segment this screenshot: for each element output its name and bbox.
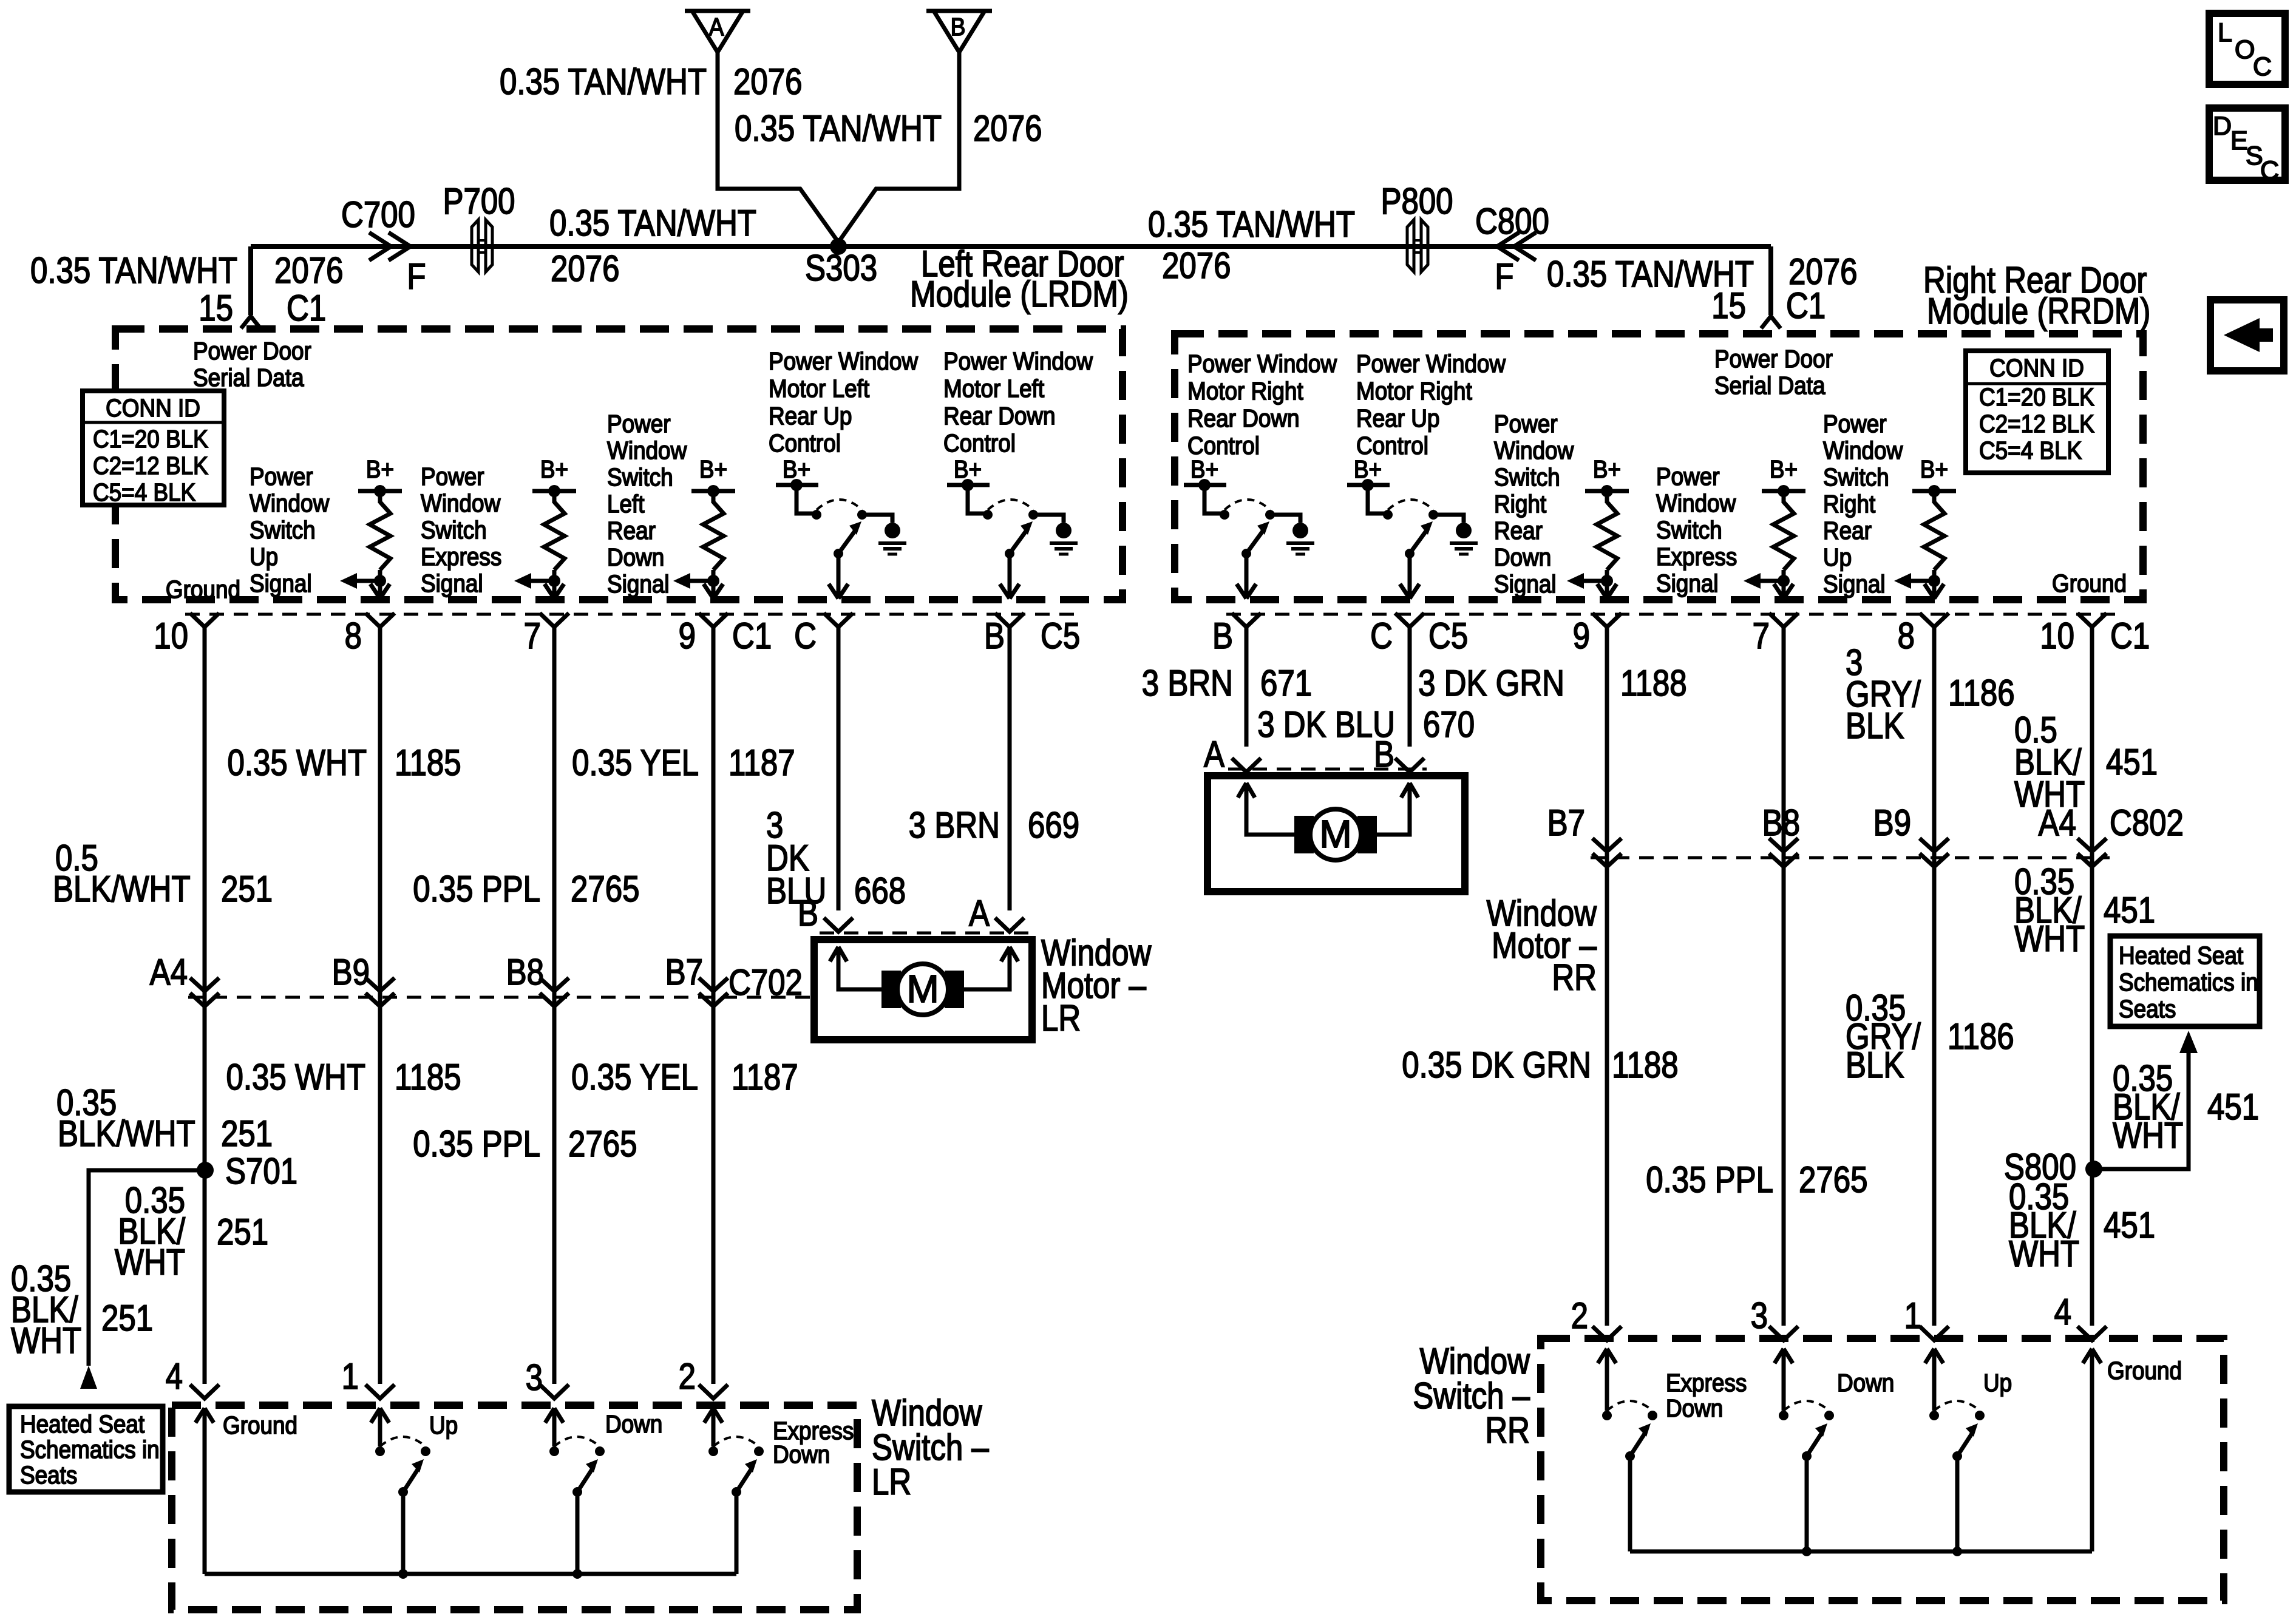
switch RR pin chevron xyxy=(1592,1326,1622,1340)
svg-text:Power: Power xyxy=(607,410,671,438)
RRDM pin 9 chevron xyxy=(1592,613,1622,627)
wire power window motor right rear down control to ground xyxy=(1270,515,1300,523)
wire 1186 (pin8 RRDM to switch RR pin1) xyxy=(1932,628,1937,1326)
svg-text:251: 251 xyxy=(221,1113,273,1154)
motor RR connector row xyxy=(1228,768,1427,771)
svg-text:LR: LR xyxy=(872,1462,911,1502)
wire S800 branch to heated seat xyxy=(2094,1053,2189,1169)
switch moving arm xyxy=(732,1487,741,1497)
wire from triangle A xyxy=(718,52,838,242)
svg-text:Switch: Switch xyxy=(250,517,316,544)
LRDM pin 9 chevron xyxy=(699,613,728,627)
LRDM bottom connector line (thin dashed) xyxy=(185,613,1081,616)
connector C802 B7 xyxy=(1592,838,1622,852)
svg-text:B+: B+ xyxy=(1770,456,1798,483)
switch arm power window motor left rear up control xyxy=(834,549,843,558)
LRDM CONN ID table xyxy=(83,391,224,505)
right corner stub to RRDM pin 15 xyxy=(1768,246,1773,315)
svg-text:Switch: Switch xyxy=(1494,464,1560,491)
wire arm to common bus xyxy=(401,1492,406,1574)
svg-text:Right: Right xyxy=(1823,490,1875,518)
svg-text:0.35 DK GRN: 0.35 DK GRN xyxy=(1402,1045,1591,1085)
module box Right Rear Door Module (dashed) xyxy=(1175,334,2143,600)
RRDM pin 10 chevron xyxy=(2077,613,2107,627)
signal arrow power window switch express signal R2 xyxy=(529,579,554,583)
svg-text:P700: P700 xyxy=(443,181,515,222)
DESC reference box xyxy=(2209,108,2285,180)
off-page connector triangle A xyxy=(685,9,750,13)
svg-text:LR: LR xyxy=(1041,998,1081,1039)
svg-text:3 DK GRN: 3 DK GRN xyxy=(1418,663,1564,703)
arrowhead power window switch express signal R2 to pin xyxy=(545,584,554,598)
svg-text:Rear: Rear xyxy=(1494,517,1543,544)
junction xyxy=(572,1569,582,1579)
svg-text:B7: B7 xyxy=(665,952,703,992)
resistor power window switch express signal R2 xyxy=(544,502,565,570)
svg-text:Rear Up: Rear Up xyxy=(1356,405,1439,432)
svg-text:C5=4 BLK: C5=4 BLK xyxy=(1979,437,2082,464)
svg-text:Rear Up: Rear Up xyxy=(769,402,852,430)
wire 2765 (pin7 to switch LR pin3) xyxy=(552,628,557,1384)
svg-text:B+: B+ xyxy=(540,456,568,483)
svg-text:B: B xyxy=(984,615,1005,656)
window switch RR box (dashed) xyxy=(1541,1338,2224,1601)
svg-text:C5: C5 xyxy=(1041,615,1080,656)
svg-text:451: 451 xyxy=(2104,1205,2155,1246)
svg-text:Power: Power xyxy=(250,463,313,490)
svg-text:Power: Power xyxy=(421,463,484,490)
wire power window switch express signal R2 resistor to module pin xyxy=(552,570,557,598)
svg-text:669: 669 xyxy=(1028,805,1079,846)
svg-text:WHT: WHT xyxy=(2113,1115,2183,1156)
svg-text:Signal: Signal xyxy=(1656,570,1719,597)
pin 15 chevron RRDM xyxy=(1761,316,1781,328)
off-page arrow to heated seat right xyxy=(2179,1031,2198,1053)
connector C800 xyxy=(1497,232,1519,260)
svg-text:C2=12 BLK: C2=12 BLK xyxy=(93,452,208,480)
motor LR symbol xyxy=(881,971,901,1008)
wire 251 ground (pin10 LRDM to switch LR pin4) xyxy=(203,628,207,1384)
svg-text:B7: B7 xyxy=(1547,802,1585,843)
svg-text:Power Window: Power Window xyxy=(769,348,919,375)
svg-text:4: 4 xyxy=(166,1356,183,1397)
resistor power window switch right rear down signal R4 xyxy=(1597,502,1617,570)
wire arm to common bus xyxy=(1805,1456,1809,1551)
svg-text:Window: Window xyxy=(1823,437,1903,464)
switch RR pin chevron xyxy=(2077,1326,2107,1340)
window motor LR box xyxy=(814,940,1032,1040)
svg-text:1: 1 xyxy=(342,1356,359,1397)
switch arm power window motor right rear up control xyxy=(1405,549,1415,558)
svg-text:Window: Window xyxy=(1656,490,1736,517)
svg-text:Seats: Seats xyxy=(2119,995,2176,1023)
svg-text:C1: C1 xyxy=(2110,615,2150,656)
wire 669 (pin B to motor LR pin A) xyxy=(1008,628,1012,910)
LRDM pin C chevron xyxy=(824,613,853,627)
svg-text:2076: 2076 xyxy=(973,108,1042,149)
left corner stub to LRDM pin 15 xyxy=(248,246,253,315)
svg-text:0.35 TAN/WHT: 0.35 TAN/WHT xyxy=(500,61,707,102)
RRDM CONN ID table xyxy=(1966,351,2108,473)
motor LR connector row xyxy=(820,932,1032,935)
motor RR symbol xyxy=(1294,816,1314,853)
svg-text:Heated Seat: Heated Seat xyxy=(20,1411,144,1438)
arrowhead power window switch left rear down signal R3 to pin xyxy=(704,584,713,598)
signal arrow power window switch left rear down signal R3 xyxy=(688,579,713,583)
svg-text:L: L xyxy=(2218,18,2232,47)
RRDM pin 7 chevron xyxy=(1769,613,1798,627)
svg-text:1187: 1187 xyxy=(732,1057,798,1097)
svg-text:1188: 1188 xyxy=(1612,1045,1679,1085)
svg-text:B: B xyxy=(951,13,966,41)
svg-text:WHT: WHT xyxy=(11,1320,81,1361)
svg-text:3 BRN: 3 BRN xyxy=(1142,663,1233,703)
connector C702 B9 xyxy=(365,978,395,991)
switch moving arm xyxy=(1802,1451,1812,1461)
svg-text:668: 668 xyxy=(854,870,906,911)
ground of power window motor right rear down control xyxy=(1292,523,1308,538)
svg-text:10: 10 xyxy=(2040,615,2074,656)
svg-text:1186: 1186 xyxy=(1948,673,2015,713)
svg-text:BLK/WHT: BLK/WHT xyxy=(58,1113,195,1154)
wire power window motor right rear down control arm to pin xyxy=(1245,554,1249,598)
svg-text:C1: C1 xyxy=(1786,285,1826,326)
signal arrow power window switch right rear down signal R4 xyxy=(1581,579,1607,583)
svg-text:2765: 2765 xyxy=(571,869,639,909)
LRDM pin B chevron xyxy=(995,613,1024,627)
svg-text:Motor Right: Motor Right xyxy=(1187,378,1303,405)
svg-text:B: B xyxy=(798,893,818,934)
svg-text:C1=20 BLK: C1=20 BLK xyxy=(1979,384,2094,411)
svg-text:C5=4 BLK: C5=4 BLK xyxy=(93,479,195,506)
svg-text:9: 9 xyxy=(679,615,696,656)
svg-text:0.35 PPL: 0.35 PPL xyxy=(413,1124,540,1164)
svg-text:A: A xyxy=(709,13,724,41)
svg-text:CONN ID: CONN ID xyxy=(1989,354,2084,382)
wire 1187 (pin9 to switch LR pin2) xyxy=(712,628,716,1384)
wire 451 ground (pin10 RRDM to switch RR pin4) xyxy=(2090,628,2094,1326)
svg-text:B+: B+ xyxy=(1920,456,1948,483)
wire 670 (pin C to motor RR pin B) xyxy=(1408,628,1412,747)
connector C702 B8 xyxy=(540,978,569,991)
svg-text:C700: C700 xyxy=(341,194,415,235)
svg-text:Power: Power xyxy=(1494,410,1558,438)
svg-text:7: 7 xyxy=(524,615,541,656)
arrowhead power window switch right rear down signal R4 to pin xyxy=(1597,584,1607,598)
svg-text:C: C xyxy=(2260,156,2279,185)
svg-text:F: F xyxy=(1495,256,1513,297)
switch arm feed arrow xyxy=(1598,1349,1607,1363)
svg-text:Down: Down xyxy=(1494,544,1551,571)
svg-text:B8: B8 xyxy=(1762,802,1800,843)
svg-text:2076: 2076 xyxy=(274,250,343,291)
switch moving arm xyxy=(1625,1451,1635,1461)
connector C702 B7 xyxy=(699,978,728,991)
svg-text:Ground: Ground xyxy=(2107,1357,2182,1385)
svg-text:Ground: Ground xyxy=(2052,570,2127,597)
ground of power window motor right rear up control xyxy=(1456,523,1472,538)
svg-text:Serial Data: Serial Data xyxy=(1714,372,1826,399)
RRDM pin 8 chevron xyxy=(1920,613,1949,627)
LRDM pin 10 chevron xyxy=(190,613,219,627)
svg-text:M: M xyxy=(906,967,939,1011)
motor RR pin A chevron xyxy=(1232,758,1261,772)
pin 15 chevron xyxy=(241,316,260,328)
switch arm feed arrow xyxy=(371,1408,380,1423)
svg-text:8: 8 xyxy=(345,615,362,656)
arrowhead power window switch right rear up signal R6 to pin xyxy=(1924,584,1934,598)
svg-text:Down: Down xyxy=(773,1441,830,1468)
wire power window switch left rear down signal R3 resistor to module pin xyxy=(712,570,716,598)
svg-text:0.35 YEL: 0.35 YEL xyxy=(571,1057,698,1097)
switch arm feed arrow xyxy=(545,1408,554,1423)
svg-text:3: 3 xyxy=(526,1357,543,1398)
ground of power window motor left rear down control xyxy=(1056,523,1072,538)
svg-text:Motor Left: Motor Left xyxy=(769,375,869,402)
svg-text:Down: Down xyxy=(607,544,664,571)
svg-text:Switch: Switch xyxy=(607,464,673,491)
switch arm feed arrow xyxy=(704,1408,713,1423)
svg-text:O: O xyxy=(2235,35,2255,64)
svg-text:B+: B+ xyxy=(366,456,394,483)
svg-text:Seats: Seats xyxy=(20,1462,77,1489)
svg-text:F: F xyxy=(407,256,426,297)
svg-text:0.35 TAN/WHT: 0.35 TAN/WHT xyxy=(1148,204,1355,245)
switch LR pin chevron xyxy=(699,1385,728,1398)
svg-text:1187: 1187 xyxy=(729,742,795,783)
wire power window motor left rear down control arm to pin xyxy=(1008,554,1012,598)
switch arm feed arrow xyxy=(1775,1349,1784,1363)
switch arm feed arrow xyxy=(1925,1349,1934,1363)
wire power window switch right rear up signal R6 resistor to module pin xyxy=(1932,570,1937,598)
wire 1185 (pin8 to switch LR pin1) xyxy=(378,628,382,1384)
inline connector C702 row (thin dashed) xyxy=(188,996,812,999)
svg-text:B9: B9 xyxy=(332,952,370,992)
svg-text:C802: C802 xyxy=(2110,802,2184,843)
back arrow box xyxy=(2210,300,2284,371)
window motor RR box xyxy=(1207,776,1465,892)
LRDM pin 8 chevron xyxy=(365,613,395,627)
wire: power door serial data bus 2076 xyxy=(251,244,1771,249)
svg-text:1185: 1185 xyxy=(395,1057,461,1097)
RRDM pin C chevron xyxy=(1395,613,1424,627)
svg-text:Ground: Ground xyxy=(223,1412,297,1439)
motor LR internal wiring xyxy=(830,947,838,961)
svg-text:Switch: Switch xyxy=(1656,517,1722,544)
svg-text:8: 8 xyxy=(1898,615,1915,656)
svg-text:0.35 YEL: 0.35 YEL xyxy=(572,742,699,783)
svg-text:Module (RRDM): Module (RRDM) xyxy=(1927,291,2150,331)
svg-text:0.35 WHT: 0.35 WHT xyxy=(226,1057,365,1097)
svg-text:0.35 WHT: 0.35 WHT xyxy=(227,742,367,783)
svg-text:Signal: Signal xyxy=(607,571,670,598)
svg-text:9: 9 xyxy=(1573,615,1590,656)
svg-text:BLK: BLK xyxy=(1846,705,1904,746)
svg-text:C1=20 BLK: C1=20 BLK xyxy=(93,425,208,453)
svg-text:A: A xyxy=(969,893,990,934)
signal arrow power window switch up signal R1 xyxy=(355,579,380,583)
motor LR pin A chevron xyxy=(995,918,1024,932)
svg-text:Rear Down: Rear Down xyxy=(943,402,1056,430)
svg-text:Signal: Signal xyxy=(1494,571,1557,598)
svg-text:Motor Right: Motor Right xyxy=(1356,378,1472,405)
switch LR pin chevron xyxy=(540,1385,569,1398)
svg-text:WHT: WHT xyxy=(115,1242,185,1283)
wire power window motor left rear up control arm to pin xyxy=(837,554,841,598)
wire S701 branch to heated seat xyxy=(89,1170,205,1366)
svg-text:Down: Down xyxy=(1837,1369,1894,1397)
svg-text:BLK/WHT: BLK/WHT xyxy=(53,869,191,909)
svg-text:B+: B+ xyxy=(699,456,727,483)
svg-text:B: B xyxy=(1212,615,1233,656)
svg-text:3 BRN: 3 BRN xyxy=(909,805,1000,846)
svg-text:C: C xyxy=(794,615,817,656)
svg-text:WHT: WHT xyxy=(2014,918,2085,959)
wire power window motor right rear up control arm to pin xyxy=(1408,554,1412,598)
svg-text:P800: P800 xyxy=(1381,181,1453,222)
svg-text:1188: 1188 xyxy=(1620,663,1687,703)
svg-text:2: 2 xyxy=(1571,1295,1588,1336)
resistor power window switch up signal R1 xyxy=(370,502,390,570)
svg-text:Right: Right xyxy=(1494,490,1546,518)
switch RR pin chevron xyxy=(1769,1326,1798,1340)
svg-text:Rear: Rear xyxy=(1823,517,1872,544)
wire 1188 (pin9 RRDM to switch RR pin2) xyxy=(1605,628,1609,1326)
junction xyxy=(1802,1547,1812,1556)
wire 2765 (pin7 RRDM to switch RR pin3) xyxy=(1782,628,1786,1326)
svg-text:Power: Power xyxy=(1823,410,1887,438)
svg-text:1186: 1186 xyxy=(1948,1016,2014,1057)
svg-text:B8: B8 xyxy=(506,952,544,992)
resistor power window switch right rear up signal R6 xyxy=(1924,502,1944,570)
inline connector C802 row (thin dashed) xyxy=(1591,856,2110,859)
junction xyxy=(1952,1547,1962,1556)
svg-text:Power: Power xyxy=(1656,463,1720,490)
svg-text:451: 451 xyxy=(2104,890,2155,931)
svg-text:Motor Left: Motor Left xyxy=(943,375,1044,402)
signal arrow power window switch express signal R5 xyxy=(1758,579,1784,583)
svg-text:2076: 2076 xyxy=(1162,245,1231,286)
svg-text:1: 1 xyxy=(1904,1295,1921,1336)
junction xyxy=(398,1569,408,1579)
svg-text:Down: Down xyxy=(605,1411,662,1438)
switch LR common bus xyxy=(205,1572,736,1576)
heated seat reference box (left) xyxy=(9,1406,163,1492)
svg-text:451: 451 xyxy=(2106,742,2158,782)
svg-text:Switch: Switch xyxy=(421,517,487,544)
svg-text:1185: 1185 xyxy=(395,742,461,783)
svg-text:2: 2 xyxy=(679,1356,696,1397)
svg-text:C800: C800 xyxy=(1475,201,1549,242)
svg-text:Control: Control xyxy=(943,430,1016,457)
svg-text:M: M xyxy=(1319,812,1351,856)
svg-text:Left: Left xyxy=(607,490,645,518)
svg-text:Up: Up xyxy=(1983,1369,2012,1397)
svg-text:C2=12 BLK: C2=12 BLK xyxy=(1979,410,2094,438)
arrowhead power window switch up signal R1 to pin xyxy=(370,584,380,598)
svg-text:B9: B9 xyxy=(1873,802,1911,843)
svg-text:Up: Up xyxy=(429,1412,458,1439)
svg-text:Rear Down: Rear Down xyxy=(1187,405,1300,432)
RRDM pin B chevron xyxy=(1232,613,1261,627)
svg-text:Power Door: Power Door xyxy=(1714,345,1833,373)
node S303 splice xyxy=(830,238,847,255)
wire arm to common bus xyxy=(576,1492,580,1574)
svg-text:C1: C1 xyxy=(287,288,326,328)
wire 671 (pin B to motor RR pin A) xyxy=(1245,628,1249,747)
switch LR pin chevron xyxy=(365,1385,395,1398)
signal arrow power window switch right rear up signal R6 xyxy=(1909,579,1934,583)
window switch LR box (dashed) xyxy=(172,1405,857,1610)
switch RR pin chevron xyxy=(1920,1326,1949,1340)
svg-text:C5: C5 xyxy=(1428,615,1468,656)
svg-text:15: 15 xyxy=(199,288,233,328)
off-page connector triangle B xyxy=(926,9,992,13)
motor RR internal wiring xyxy=(1238,783,1246,798)
svg-text:C702: C702 xyxy=(729,962,803,1003)
svg-text:2076: 2076 xyxy=(733,61,802,102)
svg-text:251: 251 xyxy=(221,869,273,909)
svg-text:Signal: Signal xyxy=(421,570,483,597)
svg-text:3: 3 xyxy=(1751,1295,1768,1336)
module box Left Rear Door Module (dashed) xyxy=(115,329,1123,600)
switch moving arm xyxy=(1952,1451,1962,1461)
svg-text:7: 7 xyxy=(1753,615,1770,656)
resistor power window switch express signal R5 xyxy=(1773,502,1794,570)
svg-text:RR: RR xyxy=(1552,957,1597,998)
svg-text:451: 451 xyxy=(2207,1086,2259,1127)
left arrow xyxy=(2224,318,2273,352)
svg-text:Up: Up xyxy=(250,543,278,571)
svg-text:Window: Window xyxy=(421,490,501,517)
svg-text:0.35 TAN/WHT: 0.35 TAN/WHT xyxy=(735,108,942,149)
wire arm to common bus xyxy=(1628,1456,1632,1551)
svg-text:Express: Express xyxy=(1656,543,1737,571)
RRDM bottom connector line (thin dashed) xyxy=(1226,613,2122,616)
wire power window motor left rear up control to ground xyxy=(862,515,892,523)
svg-text:Ground: Ground xyxy=(166,576,240,603)
wire power window switch right rear down signal R4 resistor to module pin xyxy=(1605,570,1609,598)
svg-text:0.35 PPL: 0.35 PPL xyxy=(413,869,540,909)
arrowhead power window switch express signal R5 to pin xyxy=(1774,584,1784,598)
svg-text:S701: S701 xyxy=(225,1151,297,1192)
LOC reference box xyxy=(2209,13,2285,84)
connector C802 B9 xyxy=(1920,838,1949,852)
svg-text:Switch: Switch xyxy=(1823,464,1889,491)
switch moving arm xyxy=(572,1487,582,1497)
svg-text:D: D xyxy=(2213,112,2232,141)
wire power window motor left rear down control to ground xyxy=(1033,515,1064,523)
svg-text:Signal: Signal xyxy=(250,570,312,597)
wire power window motor right rear up control to ground xyxy=(1433,515,1464,523)
svg-text:Power Window: Power Window xyxy=(1187,350,1337,378)
ground wire into switch RR xyxy=(2083,1349,2092,1363)
svg-text:0.35 TAN/WHT: 0.35 TAN/WHT xyxy=(549,203,756,243)
off-page arrow to heated seat xyxy=(80,1366,97,1389)
svg-text:C: C xyxy=(1370,615,1393,656)
switch arm power window motor left rear down control xyxy=(1005,549,1014,558)
svg-text:A: A xyxy=(1204,734,1225,775)
svg-text:0.35 PPL: 0.35 PPL xyxy=(1646,1159,1773,1200)
svg-text:WHT: WHT xyxy=(2009,1233,2079,1274)
svg-text:0.35 TAN/WHT: 0.35 TAN/WHT xyxy=(30,250,237,291)
svg-text:A4: A4 xyxy=(2039,802,2076,843)
svg-text:Schematics in: Schematics in xyxy=(20,1436,160,1463)
svg-text:Schematics in: Schematics in xyxy=(2119,969,2258,996)
connector C802 A4 xyxy=(2077,838,2107,852)
svg-text:Rear: Rear xyxy=(607,517,656,544)
LRDM pin 7 chevron xyxy=(540,613,569,627)
